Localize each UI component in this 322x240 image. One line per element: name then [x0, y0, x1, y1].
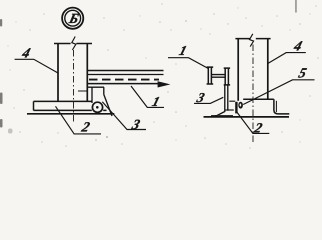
base plate left edge (left view) [33, 101, 35, 110]
paper background [0, 0, 322, 153]
scan artifact: left edge blob lower [0, 119, 3, 128]
base plate top edge (left view) [34, 100, 93, 102]
brace I-beam left flange caps [207, 67, 214, 84]
label 5 leader (right view) [243, 80, 314, 105]
label 4 leader (right view) [268, 53, 306, 64]
cleat top line [229, 100, 235, 102]
support bracket sloped edge [104, 95, 112, 117]
ground line (left view) [27, 113, 114, 115]
hinge roller circle [92, 102, 102, 112]
label 1 leader (left view) [131, 86, 164, 107]
label 4 leader (left view) [15, 59, 58, 73]
scan artifact: left edge blob middle [0, 93, 3, 105]
cleat vertical bar [235, 102, 237, 114]
view marker circle Б (outer ring) [62, 8, 83, 29]
column top edge (left view) [54, 43, 92, 45]
column left flange line (right view) [237, 39, 239, 101]
column centre dash-dot axis (right view) [252, 45, 254, 143]
view marker circle Б (inner ring) [65, 10, 81, 26]
gusset foot flare [215, 112, 225, 117]
column break mark (left view) [72, 37, 76, 51]
support bracket top line [87, 86, 104, 88]
label 3 leader (left view) [102, 102, 146, 130]
gusset foot line [211, 114, 233, 116]
brace I-beam web [212, 75, 226, 78]
cleat lower line [225, 109, 234, 111]
beam second line [87, 74, 163, 76]
column right flange line (right view) [267, 39, 269, 100]
gusset plate below brace [225, 85, 228, 112]
pedestal right side inner line [275, 101, 277, 112]
scan artifact: small blob bottom left [8, 129, 13, 134]
brace I-beam right flange [225, 68, 228, 85]
pedestal top plate (right view) [243, 98, 274, 100]
hinge pin dot [96, 106, 99, 109]
label 1 leader (right view) [168, 58, 208, 69]
ground line (right view) [204, 116, 290, 118]
beam top chord line [87, 70, 163, 72]
brace I-beam right flange caps [224, 68, 230, 85]
scan noise speckle [7, 3, 319, 149]
beam direction arrowhead [158, 81, 171, 87]
label 2 leader (left view) [56, 106, 102, 134]
base plate bottom edge (left view) [34, 109, 107, 111]
support bracket left plate [91, 87, 93, 103]
console line under beam at column [78, 90, 87, 92]
column top edge (right view) [235, 38, 270, 40]
column right flange line (left view) [86, 44, 88, 102]
scan artifact: top right vertical mark [295, 0, 297, 13]
column centre dash-dot axis (left view) [73, 50, 75, 123]
label 2 leader (right view) [237, 112, 269, 133]
anchor bolt head [238, 102, 243, 109]
anchor bolt head slit [240, 104, 242, 107]
brace I-beam left flange [208, 67, 211, 84]
support bracket right plate [103, 87, 105, 94]
column left flange line (left view) [57, 44, 59, 102]
label 3 leader (right view) [194, 97, 223, 103]
column break mark (right view) [250, 34, 254, 47]
beam bottom chord line [87, 83, 163, 85]
scan artifact: left edge blob top [0, 19, 2, 27]
pedestal right side and foot [274, 99, 289, 114]
beam dashed axis [89, 79, 159, 81]
